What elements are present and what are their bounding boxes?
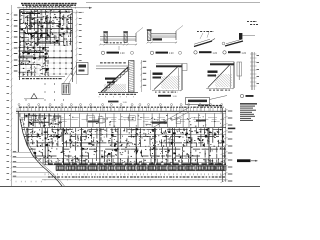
svg-text:1:20: 1:20 xyxy=(213,53,218,55)
svg-text:1:20: 1:20 xyxy=(242,53,247,55)
svg-text:1:20: 1:20 xyxy=(120,53,125,55)
svg-text:1:20: 1:20 xyxy=(169,53,174,55)
